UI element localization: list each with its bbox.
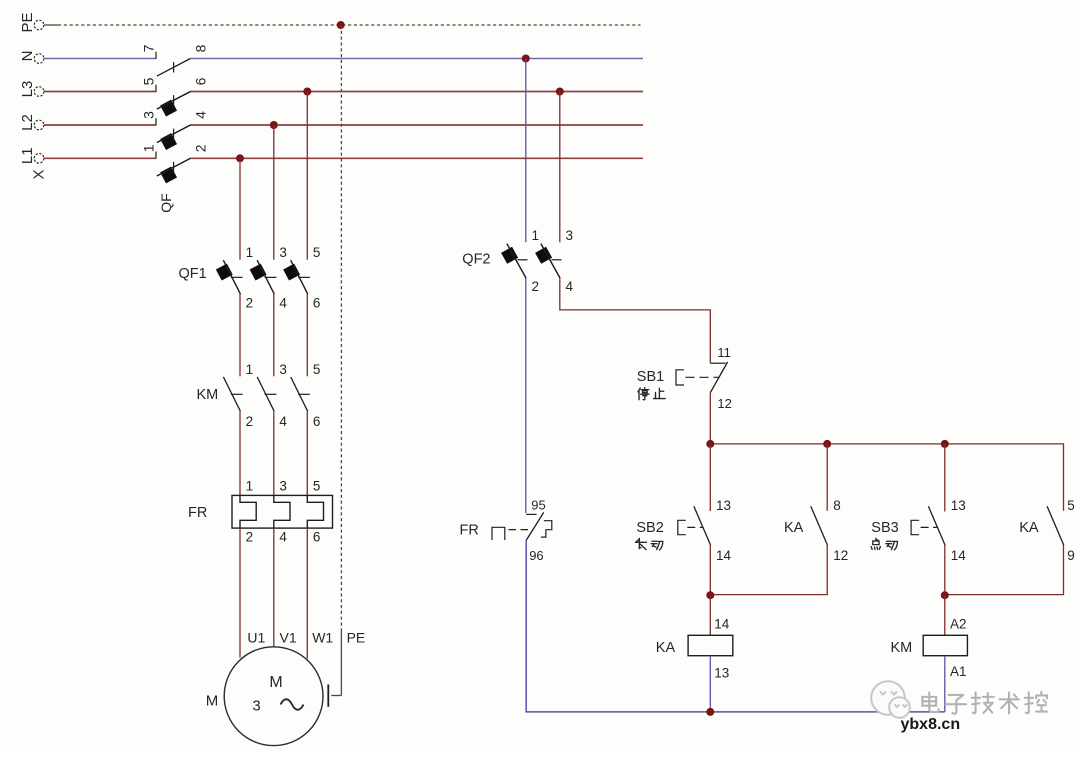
wire rail to SB2 bbox=[709, 444, 711, 511]
svg-text:SB3: SB3 bbox=[871, 520, 898, 536]
node L3 junction (QF2) bbox=[556, 88, 564, 96]
wire SB2 14 down bbox=[709, 545, 711, 595]
svg-text:A2: A2 bbox=[950, 617, 967, 632]
wire L2 drop to QF1 pin3 bbox=[273, 125, 275, 260]
wire PE drop (dashed) bbox=[340, 25, 342, 629]
svg-text:KM: KM bbox=[891, 640, 913, 656]
svg-text:X: X bbox=[31, 169, 48, 179]
wire L1 bus bbox=[44, 157, 156, 159]
svg-text:3: 3 bbox=[252, 698, 260, 715]
svg-text:95: 95 bbox=[531, 498, 545, 513]
svg-text:4: 4 bbox=[566, 279, 574, 294]
svg-text:4: 4 bbox=[279, 296, 287, 311]
relay FR manual symbol bbox=[492, 527, 505, 540]
svg-text:5: 5 bbox=[313, 479, 321, 494]
contactor KM pole 2 (pins 3-4) bbox=[257, 377, 274, 411]
svg-text:FR: FR bbox=[188, 505, 207, 521]
terminal L3 bbox=[34, 87, 44, 97]
svg-text:V1: V1 bbox=[280, 629, 297, 645]
node junction above KA coil bbox=[706, 591, 714, 599]
svg-text:3: 3 bbox=[279, 362, 287, 377]
coil KA bbox=[688, 635, 733, 655]
node L1 junction bbox=[236, 154, 244, 162]
pushbutton SB2 NO blade bbox=[694, 506, 711, 545]
svg-text:KA: KA bbox=[1019, 520, 1039, 536]
wire L2 bus bbox=[44, 124, 156, 126]
svg-text:11: 11 bbox=[717, 345, 731, 360]
svg-text:2: 2 bbox=[246, 296, 254, 311]
node L2 junction bbox=[270, 121, 278, 129]
wire L3 to QF2 pin3 bbox=[559, 92, 561, 243]
wire PE bus (dashed) bbox=[44, 24, 58, 26]
terminal PE bbox=[34, 20, 44, 30]
svg-text:2: 2 bbox=[193, 144, 209, 152]
svg-text:SB2: SB2 bbox=[636, 520, 663, 536]
svg-text:2: 2 bbox=[532, 279, 540, 294]
svg-text:3: 3 bbox=[140, 111, 156, 119]
svg-text:L3: L3 bbox=[19, 81, 36, 98]
terminal L1 bbox=[34, 154, 44, 164]
breaker QF pole N (pins 7-8) bbox=[155, 52, 157, 59]
wire SB1 12 to rail bbox=[709, 393, 711, 444]
svg-text:ybx8.cn: ybx8.cn bbox=[901, 716, 961, 733]
breaker QF pole L3 (pins 5-6) bbox=[155, 85, 157, 92]
svg-text:6: 6 bbox=[313, 530, 321, 545]
contactor KM pole 3 (pins 5-6) bbox=[291, 377, 308, 411]
wire KM pin2 to FR bbox=[239, 411, 241, 495]
svg-text:12: 12 bbox=[833, 548, 848, 563]
svg-text:14: 14 bbox=[716, 548, 732, 563]
terminal N bbox=[34, 54, 44, 64]
wire FR 96 to bottom bus bbox=[526, 540, 945, 712]
svg-text:14: 14 bbox=[714, 617, 730, 632]
wire rail to SB3 bbox=[944, 444, 946, 512]
svg-text:FR: FR bbox=[460, 522, 479, 538]
svg-text:KM: KM bbox=[197, 387, 219, 403]
breaker QF1 pole 2 (pins 3-4) bbox=[257, 260, 274, 294]
relay contact KA (seal-in) blade bbox=[811, 506, 828, 545]
svg-text:6: 6 bbox=[193, 77, 209, 85]
contactor KM pole 1 (pins 1-2) bbox=[223, 377, 240, 411]
motor AC wave bbox=[281, 699, 304, 710]
svg-text:13: 13 bbox=[714, 666, 729, 681]
svg-text:2: 2 bbox=[246, 530, 254, 545]
pushbutton SB1 actuator bbox=[676, 370, 684, 385]
breaker QF1 pole 1 (pins 1-2) bbox=[223, 260, 240, 294]
svg-text:96: 96 bbox=[529, 548, 543, 563]
label 停止 (stop) bbox=[638, 388, 649, 400]
pushbutton SB2 actuator bbox=[678, 520, 686, 534]
svg-text:N: N bbox=[19, 51, 36, 62]
svg-text:13: 13 bbox=[951, 498, 966, 513]
node KA coil to bus bbox=[706, 708, 714, 716]
relay FR NC contact seat bbox=[526, 513, 536, 515]
watermark text 电子技术控 bbox=[922, 692, 938, 712]
svg-text:SB1: SB1 bbox=[637, 369, 664, 385]
relay FR thermal actuator bbox=[541, 521, 552, 537]
svg-text:PE: PE bbox=[19, 12, 36, 32]
coil KM bbox=[923, 635, 967, 655]
svg-text:9: 9 bbox=[1067, 548, 1075, 563]
node rail junction KA bbox=[823, 440, 831, 448]
svg-text:1: 1 bbox=[246, 479, 254, 494]
wire QF1 pin2 to KM bbox=[239, 294, 241, 376]
svg-text:KA: KA bbox=[784, 520, 804, 536]
svg-text:4: 4 bbox=[193, 111, 209, 119]
svg-text:QF: QF bbox=[158, 193, 174, 212]
svg-text:3: 3 bbox=[279, 479, 287, 494]
relay FR heater element pole 2 bbox=[274, 495, 290, 528]
svg-text:2: 2 bbox=[246, 414, 254, 429]
wire KM coil A1 to bus bbox=[944, 656, 946, 712]
svg-text:5: 5 bbox=[313, 245, 321, 260]
wire N bus bbox=[44, 58, 156, 60]
svg-text:3: 3 bbox=[279, 245, 287, 260]
node rail junction SB3 bbox=[941, 440, 949, 448]
svg-text:4: 4 bbox=[279, 530, 287, 545]
wire QF2 pin4 to SB1 bbox=[560, 278, 711, 363]
svg-text:3: 3 bbox=[566, 228, 574, 243]
wire KM pin6 to FR bbox=[306, 411, 308, 495]
node PE junction bbox=[337, 21, 345, 29]
svg-text:7: 7 bbox=[140, 44, 156, 52]
svg-text:8: 8 bbox=[193, 44, 209, 52]
node L3 junction (QF1) bbox=[303, 88, 311, 96]
breaker QF2 pole 2 (pins 3-4) bbox=[541, 244, 560, 279]
svg-text:1: 1 bbox=[140, 144, 156, 152]
relay contact KA (jog interlock) blade bbox=[1047, 506, 1064, 545]
wire KA2 9 to SB3 branch bbox=[945, 545, 1064, 595]
wire control rail bbox=[710, 444, 1063, 511]
breaker QF pole L1 (pins 1-2) bbox=[155, 152, 157, 159]
breaker QF1 pole 3 (pins 5-6) bbox=[291, 260, 308, 294]
wire to KM coil A2 bbox=[944, 595, 946, 635]
wire L1 drop to QF1 pin1 bbox=[239, 158, 241, 259]
svg-text:U1: U1 bbox=[247, 629, 265, 645]
wire FR pin4 to motor V1 bbox=[273, 528, 275, 647]
wire SB3 14 down bbox=[944, 545, 946, 595]
wire L3 drop to QF1 pin5 bbox=[306, 92, 308, 260]
wire KA1 12 to SB2 branch bbox=[710, 545, 827, 595]
motor M1 circle bbox=[224, 647, 323, 746]
wire QF1 pin4 to KM bbox=[273, 294, 275, 376]
wire FR pin2 to motor U1 bbox=[239, 528, 241, 658]
svg-text:L1: L1 bbox=[19, 147, 36, 164]
node N junction bbox=[522, 55, 530, 63]
wire L3 bus bbox=[44, 91, 156, 93]
breaker QF pole L2 (pins 3-4) bbox=[155, 118, 157, 125]
label 长动 (continuous run) bbox=[636, 538, 647, 549]
wire FR pin6 to motor W1 bbox=[306, 528, 308, 659]
svg-text:A1: A1 bbox=[950, 664, 967, 679]
svg-text:4: 4 bbox=[279, 414, 287, 429]
node junction above KM coil bbox=[941, 591, 949, 599]
svg-text:M: M bbox=[269, 674, 282, 691]
svg-text:PE: PE bbox=[347, 629, 366, 645]
svg-text:13: 13 bbox=[716, 498, 731, 513]
svg-text:KA: KA bbox=[656, 640, 676, 656]
label 点动 (jog) bbox=[871, 538, 880, 549]
motor frame ground tick bbox=[327, 684, 329, 706]
wire QF2 pin2 to FR contact bbox=[525, 278, 527, 513]
pushbutton SB1 NC seat bbox=[710, 362, 725, 364]
wire PE to motor frame bbox=[340, 629, 342, 696]
relay FR heater element pole 3 bbox=[307, 495, 323, 528]
svg-text:5: 5 bbox=[1067, 498, 1075, 513]
svg-text:14: 14 bbox=[951, 548, 967, 563]
svg-text:QF2: QF2 bbox=[462, 251, 490, 267]
pushbutton SB3 NO blade bbox=[928, 506, 945, 545]
wire rail to KA contact 1 bbox=[826, 444, 828, 511]
wire KA coil 13 to bus bbox=[709, 656, 711, 712]
svg-text:6: 6 bbox=[313, 414, 321, 429]
svg-text:12: 12 bbox=[717, 396, 731, 411]
svg-text:8: 8 bbox=[833, 498, 841, 513]
wire to KA coil 14 bbox=[709, 595, 711, 635]
pushbutton SB1 NC blade bbox=[710, 362, 727, 393]
relay FR heater element pole 1 bbox=[240, 495, 256, 528]
wire N to QF2 pin1 bbox=[525, 59, 527, 243]
relay FR NC contact blade bbox=[526, 512, 544, 540]
breaker QF2 pole 1 (pins 1-2) bbox=[507, 244, 526, 279]
svg-text:5: 5 bbox=[140, 77, 156, 85]
svg-text:1: 1 bbox=[532, 228, 540, 243]
relay FR heater box bbox=[232, 495, 333, 528]
svg-text:W1: W1 bbox=[312, 629, 333, 645]
svg-text:5: 5 bbox=[313, 362, 321, 377]
svg-text:1: 1 bbox=[246, 245, 254, 260]
svg-text:M: M bbox=[206, 693, 219, 710]
node rail junction SB2 bbox=[706, 440, 714, 448]
pushbutton SB3 actuator bbox=[911, 520, 919, 534]
watermark icon (chat bubbles) bbox=[871, 681, 910, 718]
terminal L2 bbox=[34, 120, 44, 130]
svg-text:L2: L2 bbox=[19, 114, 36, 131]
wire QF1 pin6 to KM bbox=[306, 294, 308, 376]
wire KM pin4 to FR bbox=[273, 411, 275, 495]
svg-text:6: 6 bbox=[313, 296, 321, 311]
svg-text:QF1: QF1 bbox=[179, 266, 207, 282]
svg-text:1: 1 bbox=[246, 362, 254, 377]
